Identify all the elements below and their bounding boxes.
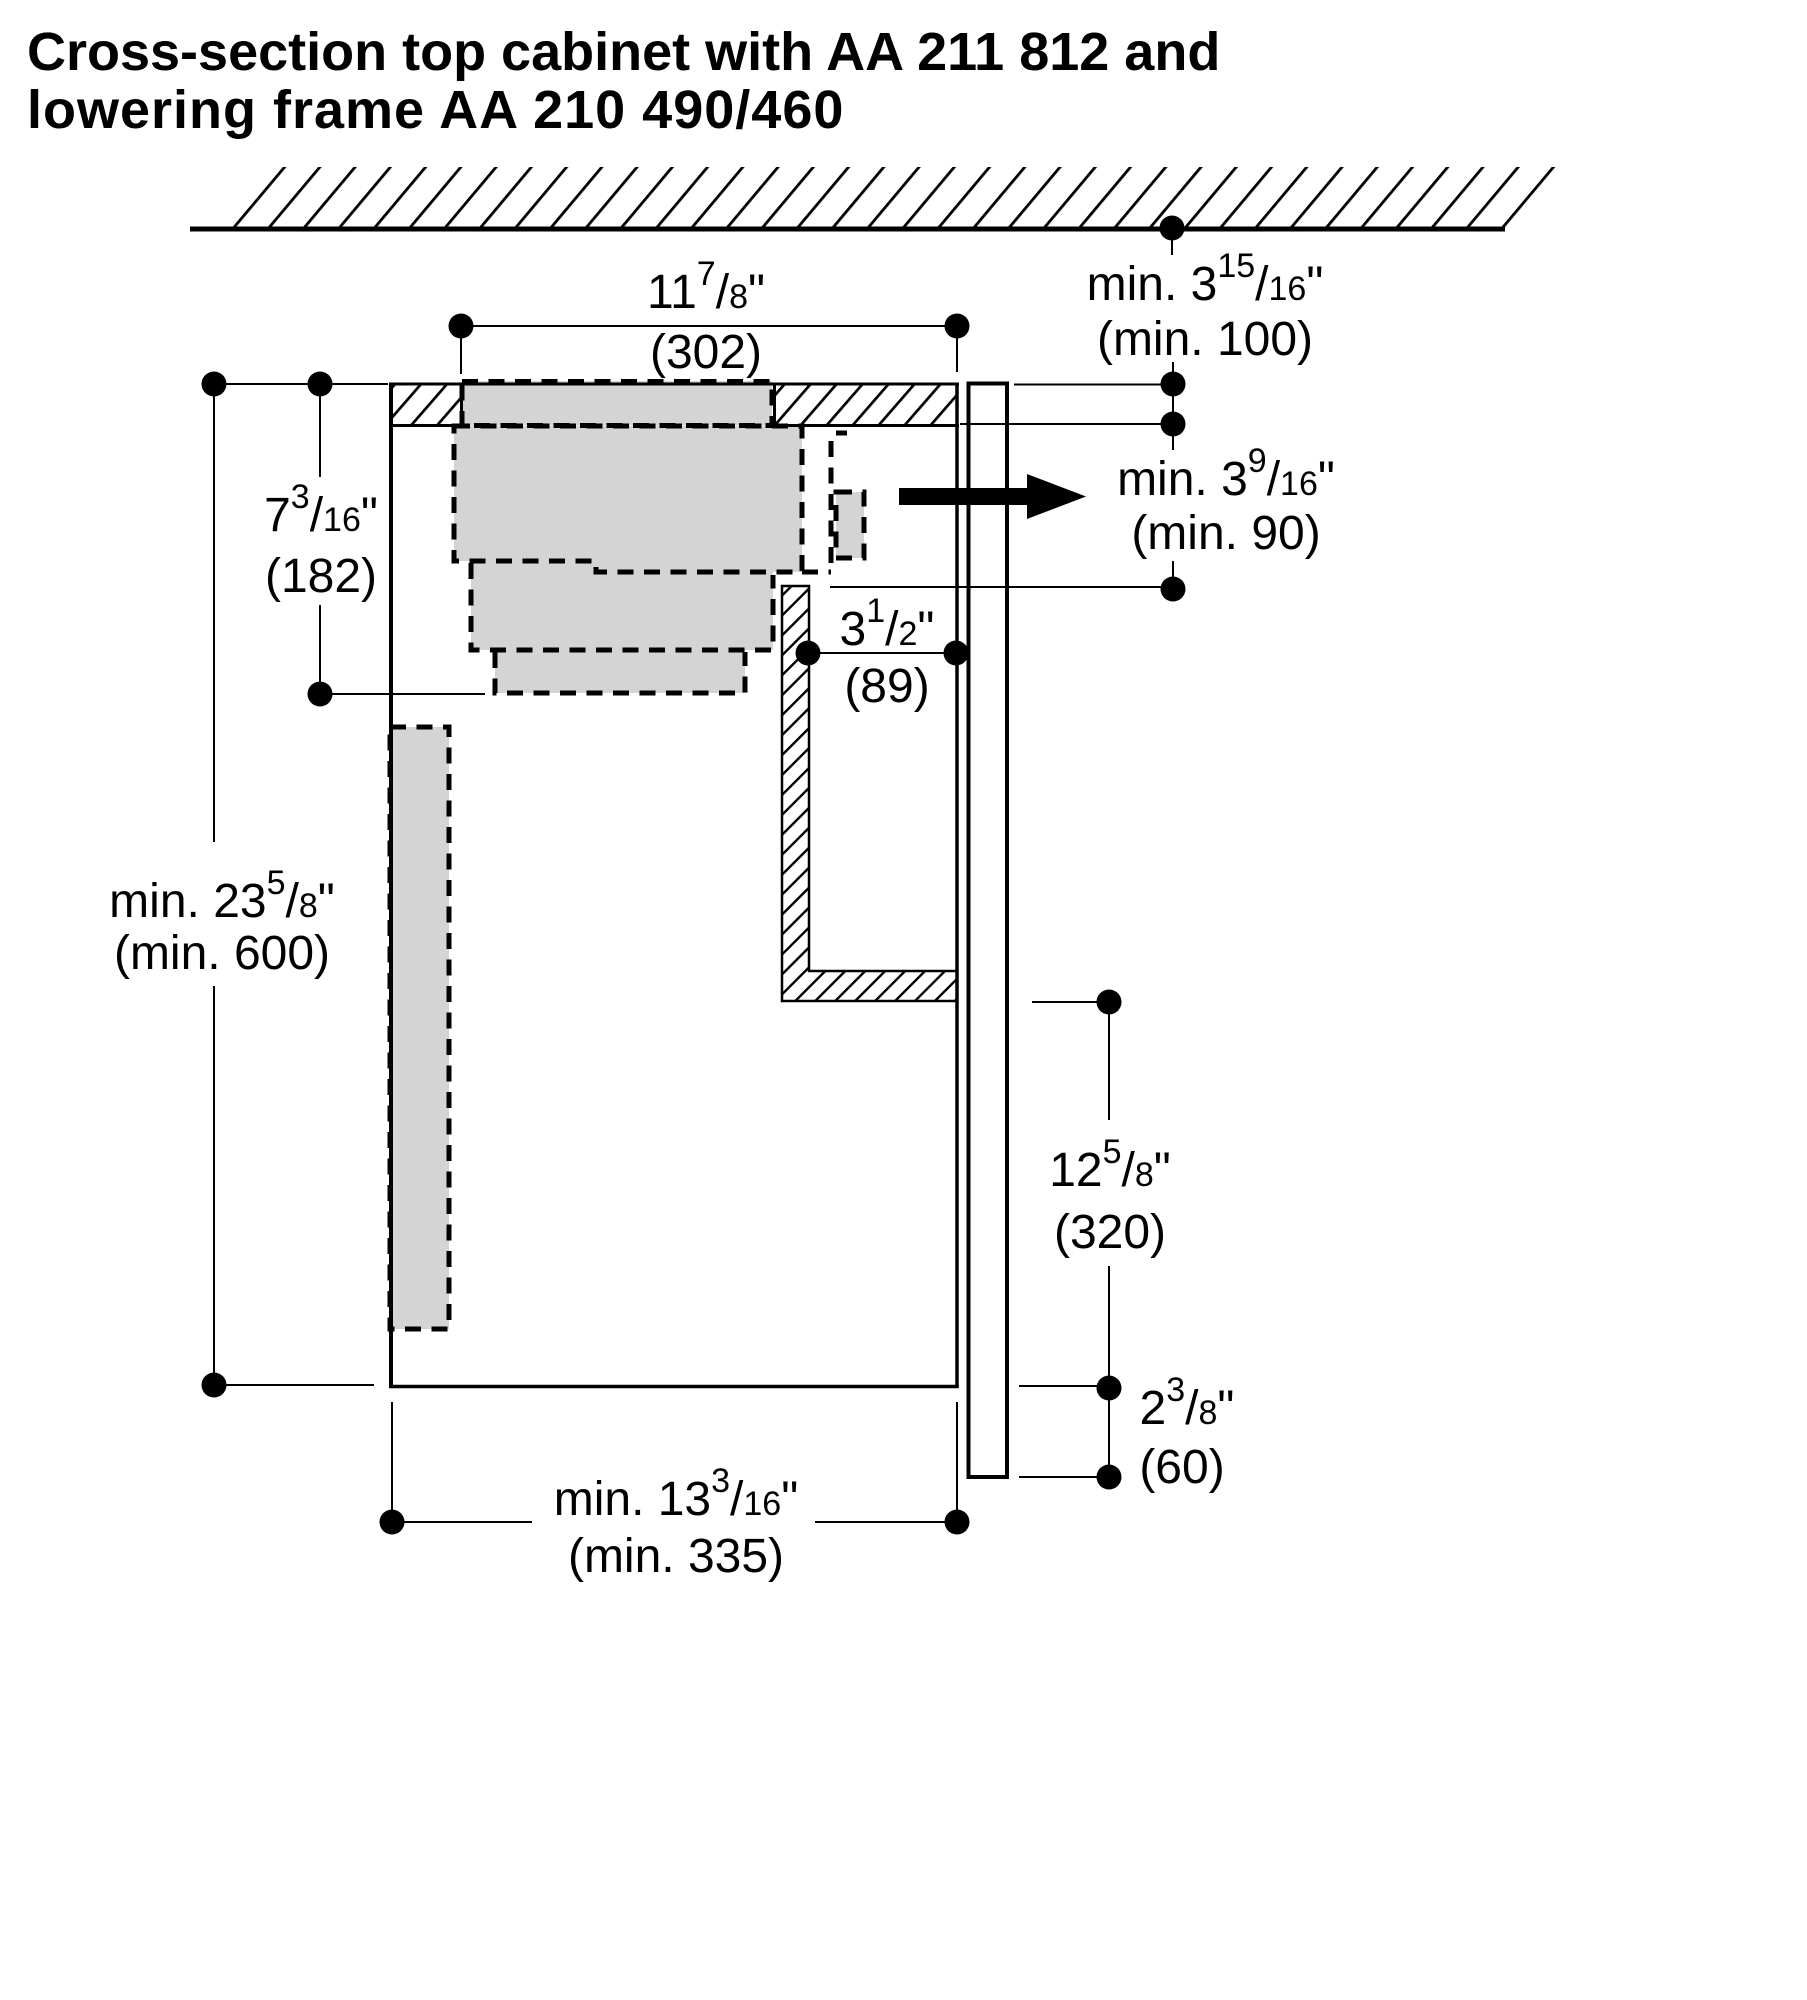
svg-text:(182): (182) bbox=[265, 550, 377, 603]
dimension line min.13-3/16 right segment bbox=[815, 1521, 945, 1523]
top board hatch left segment bbox=[391, 385, 461, 425]
top board bottom edge left bbox=[389, 424, 462, 427]
dimension line 7-3/16 upper segment bbox=[319, 396, 321, 477]
dot right column y=589 bbox=[1161, 577, 1186, 602]
dot on ceiling bbox=[1160, 216, 1185, 241]
dimension line 12-5/8 upper segment bbox=[1108, 1014, 1110, 1120]
extension line board bottom to right column bbox=[960, 423, 1161, 425]
dot top-left outer bbox=[202, 372, 227, 397]
damper bracket top dash bbox=[836, 431, 847, 436]
dot 11-7/8 right bbox=[945, 314, 970, 339]
dot min.13-3/16 right bbox=[945, 1510, 970, 1535]
dot 11-7/8 left bbox=[449, 314, 474, 339]
dot 3-1/2 left bbox=[796, 641, 821, 666]
box B dashed outline bbox=[471, 563, 773, 650]
dot 2-3/8 bottom bbox=[1097, 1465, 1122, 1490]
extension line cabinet bottom right (y=1386) bbox=[1019, 1385, 1097, 1387]
dimension line 2-3/8 bbox=[1108, 1400, 1110, 1465]
extension stub above right min.13-3/16 dot bbox=[956, 1402, 958, 1510]
extension line duct bottom (y=1002) bbox=[1032, 1001, 1097, 1003]
box A dashed outline bbox=[454, 426, 802, 572]
box C dashed outline bbox=[495, 652, 745, 693]
svg-text:(min. 335): (min. 335) bbox=[568, 1530, 784, 1583]
top board cutout left edge bbox=[460, 384, 463, 426]
extension line top left (y=384) bbox=[214, 383, 388, 385]
box S dashed outline bbox=[390, 727, 449, 1329]
svg-text:117/8": 117/8" bbox=[647, 255, 765, 319]
svg-text:125/8": 125/8" bbox=[1049, 1133, 1171, 1197]
top board bottom edge right bbox=[773, 424, 959, 427]
dimension line 11-7/8 bbox=[461, 325, 957, 327]
top board hatch right segment bbox=[774, 385, 957, 425]
dot 3-1/2 right bbox=[944, 641, 969, 666]
svg-text:min. 235/8": min. 235/8" bbox=[109, 864, 335, 928]
svg-text:lowering frame AA 210 490/460: lowering frame AA 210 490/460 bbox=[27, 80, 844, 140]
svg-text:(89): (89) bbox=[844, 660, 929, 713]
dimension line min.13-3/16 left segment bbox=[404, 1521, 532, 1523]
cabinet left wall bbox=[389, 383, 393, 1388]
box T dashed outline bbox=[462, 382, 772, 426]
stub below dot y=424 right column bbox=[1172, 436, 1174, 450]
svg-text:23/8": 23/8" bbox=[1140, 1371, 1235, 1435]
dimension line 7-3/16 lower segment bbox=[319, 605, 321, 683]
dimension line 3-1/2 bbox=[820, 652, 944, 654]
exhaust duct (hatched L profile) bbox=[782, 586, 957, 1001]
damper gray (box D) bbox=[836, 492, 864, 558]
extension line bottom left (y=1385) bbox=[214, 1384, 374, 1386]
cabinet bottom bbox=[389, 1385, 959, 1389]
dimension line 12-5/8 lower segment bbox=[1108, 1266, 1110, 1376]
extension line door bottom (y=1477) bbox=[1019, 1476, 1097, 1478]
hood body gray (box A) bbox=[454, 426, 802, 572]
svg-text:(302): (302) bbox=[650, 326, 762, 379]
extension line at y=694 bbox=[320, 693, 485, 695]
svg-text:(min. 600): (min. 600) bbox=[114, 927, 330, 980]
dashed ledge to damper bracket bbox=[802, 570, 831, 575]
top board cutout right edge bbox=[773, 384, 776, 426]
stub above dot y=384 right column bbox=[1172, 362, 1174, 373]
hood mid section gray (box B) bbox=[471, 561, 773, 650]
dimension line min.23-5/8 upper segment bbox=[213, 396, 215, 842]
exhaust direction arrow bbox=[899, 474, 1086, 519]
dimension line min.23-5/8 lower segment bbox=[213, 986, 215, 1373]
extension stub below right 11-7/8 dot bbox=[956, 338, 958, 372]
hood lower section gray (box C) bbox=[495, 650, 745, 693]
dot top-left inner bbox=[308, 372, 333, 397]
extension line hood bottom to right column bbox=[830, 586, 1161, 588]
ceiling hatch band bbox=[202, 167, 1557, 231]
dot min.23-5/8 bottom bbox=[202, 1373, 227, 1398]
stub above dot y=589 right column bbox=[1172, 561, 1174, 577]
dot right column y=384 bbox=[1161, 372, 1186, 397]
ceiling line bbox=[190, 227, 1505, 232]
svg-text:73/16": 73/16" bbox=[264, 478, 378, 542]
svg-text:min. 39/16": min. 39/16" bbox=[1117, 442, 1335, 506]
stub between right column dots bbox=[1172, 396, 1174, 412]
dot 12-5/8 bottom / 2-3/8 top bbox=[1097, 1376, 1122, 1401]
dot min.13-3/16 left bbox=[380, 1510, 405, 1535]
extension stub below left 11-7/8 dot bbox=[460, 338, 462, 374]
svg-text:(min. 90): (min. 90) bbox=[1131, 507, 1320, 560]
svg-text:31/2": 31/2" bbox=[840, 592, 935, 656]
svg-text:(320): (320) bbox=[1054, 1206, 1166, 1259]
svg-text:min. 133/16": min. 133/16" bbox=[554, 1462, 799, 1526]
svg-text:min. 315/16": min. 315/16" bbox=[1087, 247, 1324, 311]
cabinet right wall bbox=[955, 383, 959, 1388]
damper bracket vertical dashed line bbox=[829, 441, 834, 572]
top board top edge bbox=[389, 383, 959, 386]
svg-text:(60): (60) bbox=[1139, 1441, 1224, 1494]
box D dashed outline bbox=[836, 492, 864, 558]
dot 12-5/8 top bbox=[1097, 990, 1122, 1015]
extension stub above left min.13-3/16 dot bbox=[391, 1402, 393, 1510]
dot 7-3/16 bottom bbox=[308, 682, 333, 707]
svg-text:Cross-section top cabinet with: Cross-section top cabinet with AA 211 81… bbox=[27, 22, 1220, 82]
dot right column y=424 bbox=[1161, 412, 1186, 437]
side channel gray strip (box S) bbox=[390, 727, 449, 1329]
lowering frame door panel bbox=[969, 384, 1008, 1478]
hood top flange gray (box T) bbox=[462, 381, 772, 426]
extension line cabinet top to right column bbox=[1014, 384, 1161, 386]
stub below ceiling dot bbox=[1171, 233, 1173, 255]
svg-text:(min. 100): (min. 100) bbox=[1097, 313, 1313, 366]
